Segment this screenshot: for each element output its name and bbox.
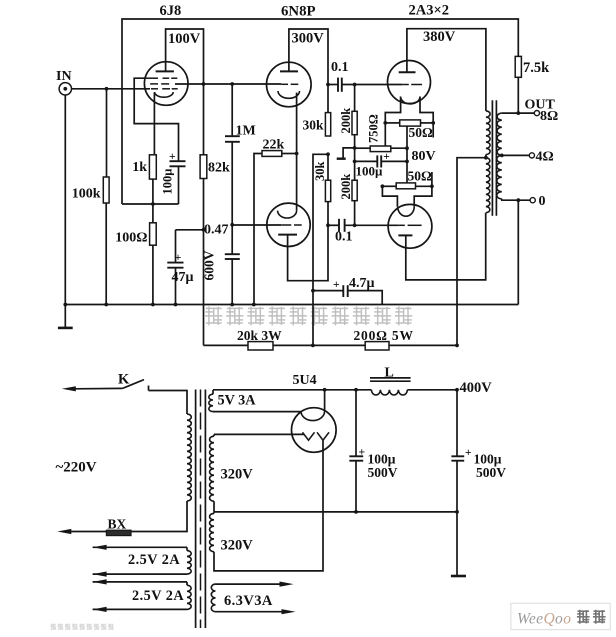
svg-text:4.7μ: 4.7μ — [349, 276, 375, 291]
svg-text:6J8: 6J8 — [160, 3, 182, 19]
svg-text:8Ω: 8Ω — [540, 109, 558, 124]
svg-text:+: + — [383, 151, 390, 163]
svg-text:22k: 22k — [263, 138, 285, 153]
svg-text:30k: 30k — [303, 118, 325, 133]
svg-text:1k: 1k — [132, 160, 147, 175]
svg-text:100Ω: 100Ω — [115, 231, 147, 246]
svg-text:BX: BX — [108, 517, 127, 532]
svg-text:4Ω: 4Ω — [536, 150, 554, 165]
svg-text:IN: IN — [56, 69, 72, 84]
svg-text:0.1: 0.1 — [331, 60, 349, 75]
svg-text:500V: 500V — [476, 465, 506, 480]
svg-text:600V: 600V — [202, 250, 217, 280]
svg-text:+: + — [465, 447, 472, 459]
svg-text:200Ω 5W: 200Ω 5W — [354, 328, 414, 343]
svg-text:80V: 80V — [412, 149, 436, 164]
svg-text:82k: 82k — [208, 161, 230, 176]
svg-text:50Ω: 50Ω — [408, 169, 433, 184]
svg-text:0: 0 — [539, 194, 546, 209]
svg-text:100k: 100k — [72, 187, 101, 202]
svg-text:6N8P: 6N8P — [281, 4, 316, 20]
svg-text:7.5k: 7.5k — [523, 60, 550, 76]
svg-text:+: + — [333, 279, 340, 291]
svg-text:2.5V 2A: 2.5V 2A — [128, 552, 180, 568]
svg-text:200k: 200k — [339, 108, 353, 134]
svg-text:K: K — [118, 372, 130, 388]
svg-text:6.3V3A: 6.3V3A — [224, 593, 273, 609]
svg-text:300V: 300V — [292, 31, 325, 47]
svg-text:+: + — [359, 447, 366, 459]
svg-text:100V: 100V — [168, 31, 201, 47]
svg-text:2A3×2: 2A3×2 — [409, 3, 449, 19]
svg-text:0.1: 0.1 — [335, 230, 353, 245]
svg-text:320V: 320V — [221, 467, 254, 483]
svg-text:100μ: 100μ — [161, 169, 175, 195]
svg-text:5V 3A: 5V 3A — [218, 393, 257, 409]
svg-text:500V: 500V — [368, 465, 398, 480]
svg-text:WeeQoo: WeeQoo — [517, 611, 571, 628]
svg-text:+: + — [169, 151, 176, 163]
svg-text:50Ω: 50Ω — [409, 125, 434, 140]
svg-text:380V: 380V — [423, 29, 456, 45]
svg-text:~220V: ~220V — [56, 460, 97, 476]
svg-text:320V: 320V — [221, 538, 254, 554]
svg-text:2.5V 2A: 2.5V 2A — [132, 588, 184, 604]
svg-text:47μ: 47μ — [172, 270, 194, 285]
svg-text:1M: 1M — [236, 124, 256, 139]
svg-text:5U4: 5U4 — [293, 373, 317, 388]
svg-text:200k: 200k — [339, 174, 353, 200]
svg-text:100μ: 100μ — [356, 164, 384, 179]
svg-text:400V: 400V — [460, 380, 493, 396]
svg-text:+: + — [175, 252, 182, 264]
svg-text:750Ω: 750Ω — [367, 114, 381, 143]
svg-text:20k 3W: 20k 3W — [237, 328, 282, 343]
svg-text:30k: 30k — [313, 162, 327, 182]
svg-text:0.47: 0.47 — [204, 223, 229, 238]
svg-text:L: L — [385, 366, 394, 381]
